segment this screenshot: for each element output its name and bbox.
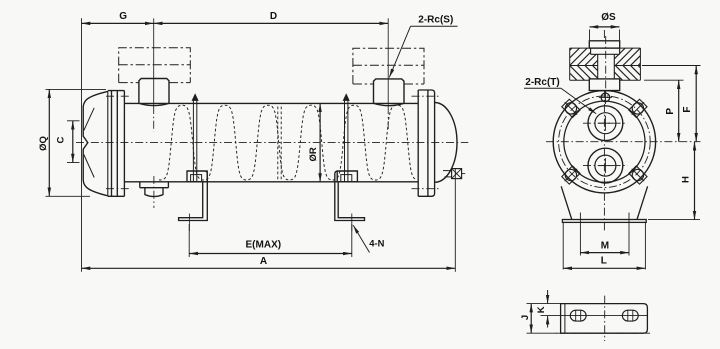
dimension E line — [189, 253, 352, 255]
leader 4-N — [353, 225, 369, 252]
left head rib upper — [84, 108, 94, 131]
left head rib lower — [84, 155, 94, 178]
dimension D line — [154, 22, 389, 24]
bolt ear lower-left — [561, 165, 581, 185]
leader 2-Rc(T) — [561, 88, 596, 114]
dimension OR line — [319, 103, 321, 182]
svg-text:E(MAX): E(MAX) — [246, 240, 282, 251]
foot plate bottom center line — [556, 332, 650, 334]
shell top line — [124, 102, 418, 104]
dimension OQ ext top — [46, 88, 107, 90]
dimension OS ext right — [619, 30, 621, 41]
dimension G line — [82, 22, 154, 24]
dimension J ext bottom — [527, 332, 558, 334]
neck lower block — [589, 79, 619, 91]
svg-text:ØQ: ØQ — [38, 136, 49, 151]
neck upper block — [589, 41, 619, 48]
bolt ear upper-right — [628, 98, 648, 118]
dimension OQ line — [48, 89, 50, 196]
dimension K upper arrow — [547, 290, 549, 304]
foot plate outline — [561, 304, 648, 334]
dimension F ext top — [642, 65, 701, 67]
svg-text:K: K — [536, 306, 547, 313]
foot plate bend line — [564, 304, 566, 334]
clamp block 2 — [337, 171, 357, 182]
phantom outline 2 — [353, 48, 424, 84]
foot slot right — [622, 310, 638, 321]
dimension C tick top — [67, 120, 80, 122]
clamp block 1 — [187, 171, 207, 182]
left shell flange — [108, 90, 125, 92]
svg-text:2-Rc(S): 2-Rc(S) — [418, 14, 453, 25]
helical coil (dashed) — [159, 105, 417, 180]
dimension L line — [563, 267, 645, 269]
dimension M ext left — [579, 213, 581, 256]
svg-text:F: F — [682, 106, 693, 112]
svg-text:4-N: 4-N — [369, 237, 384, 248]
right flange bolt center line upper — [412, 95, 441, 97]
svg-text:G: G — [119, 11, 127, 22]
dimension H line — [694, 142, 696, 220]
dimension M line — [580, 252, 629, 254]
nozzle 2 center line ext — [387, 18, 389, 106]
support leg 1 — [179, 171, 208, 221]
svg-text:2-Rc(T): 2-Rc(T) — [525, 77, 559, 88]
dimension J line — [530, 304, 532, 334]
dimension M ext right — [628, 213, 630, 256]
right flange bolt center line lower — [412, 188, 441, 190]
right drain plug — [443, 170, 452, 172]
foot plate center line — [604, 296, 606, 341]
dimension OS ext left — [589, 30, 591, 41]
extension line left (G/A) — [81, 18, 83, 271]
left head (bonnet) outline — [83, 91, 108, 195]
nozzle 2 center line lower — [387, 106, 389, 131]
dimension L ext right — [644, 222, 646, 269]
bolt ear upper-left — [561, 98, 581, 118]
dimension J ext top — [527, 303, 561, 305]
shell bottom line — [124, 181, 418, 183]
dimension F line — [695, 66, 697, 142]
stud 2 — [343, 94, 349, 100]
bottom drain nozzle — [139, 182, 141, 188]
svg-text:ØS: ØS — [601, 12, 616, 23]
top nozzle 2 — [374, 79, 405, 106]
dimension C line — [72, 121, 74, 163]
svg-text:ØR: ØR — [308, 147, 319, 161]
dimension E ext left — [188, 224, 190, 257]
neck center line overlay — [605, 36, 607, 95]
lower port bore circle — [595, 155, 616, 176]
stud 1 — [192, 94, 198, 100]
dimension A line — [82, 267, 456, 269]
foot hole center line 1 — [188, 214, 190, 232]
svg-text:L: L — [601, 256, 607, 267]
upper port bore circle — [595, 113, 616, 134]
flange outer circle — [553, 91, 655, 193]
tie rod dashed b — [280, 107, 282, 180]
dimension OS line — [590, 26, 620, 28]
bottom nozzle center line — [153, 176, 155, 208]
foot slot left — [570, 310, 586, 321]
lower port center line — [583, 165, 628, 167]
base plate — [562, 220, 646, 223]
foot plate mid line — [541, 315, 648, 317]
svg-text:M: M — [601, 240, 609, 251]
pedestal left side — [561, 186, 572, 219]
support leg 2 — [335, 171, 365, 221]
end view vertical center line — [603, 30, 605, 233]
end view horizontal center line — [546, 141, 701, 143]
bolt circle centerline — [559, 96, 651, 188]
dimension K lower arrow — [547, 316, 549, 328]
dimension P line — [678, 80, 680, 142]
nozzle 1 center line lower — [153, 106, 155, 132]
pedestal right side — [637, 186, 648, 219]
dimension C tick bottom — [67, 162, 80, 164]
flange raised face circle — [564, 101, 645, 182]
top bolt hole — [601, 93, 610, 102]
dimension P ext top — [644, 79, 684, 81]
upper port center line — [583, 122, 628, 124]
center line of side view — [76, 142, 468, 144]
dimension L ext left — [562, 222, 564, 269]
svg-text:D: D — [270, 11, 277, 22]
dimension E ext right — [351, 224, 353, 257]
svg-text:J: J — [520, 315, 531, 320]
svg-text:H: H — [681, 176, 692, 183]
right shell flange — [417, 90, 419, 196]
svg-text:A: A — [260, 256, 267, 267]
leader 2-Rc(S) — [389, 26, 410, 77]
extension line A right — [454, 168, 456, 272]
left flange bolt center line upper — [106, 95, 132, 97]
left flange bolt center line lower — [106, 188, 132, 190]
right dished head — [435, 103, 457, 183]
dimension H ext bottom — [648, 219, 700, 221]
phantom outline 1 — [119, 48, 191, 83]
dimension OQ ext bottom — [46, 195, 91, 197]
upper port boss circle — [588, 106, 623, 141]
svg-text:P: P — [665, 108, 676, 115]
top nozzle 1 — [139, 79, 169, 106]
bolt ear lower-right — [628, 165, 648, 185]
foot hole center line 2 — [351, 214, 353, 232]
nozzle 1 center line ext — [153, 18, 155, 105]
svg-text:C: C — [56, 136, 67, 143]
tie rod dashed a — [277, 107, 279, 180]
lower port boss circle — [588, 148, 623, 183]
